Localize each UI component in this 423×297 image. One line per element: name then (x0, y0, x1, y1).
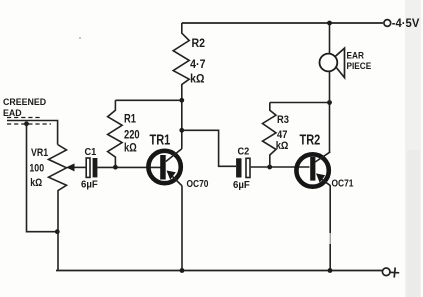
resistor R1 (108, 100, 123, 167)
node: R2 / R1 junction (179, 98, 184, 103)
label -4.5V (392, 18, 420, 30)
top supply rail (182, 22, 383, 24)
label OC70 (187, 178, 209, 190)
wire: R2 node down to collector node (181, 100, 183, 149)
capacitor C1 (86, 158, 90, 177)
screened lead: lower screen (dashed) (7, 123, 51, 125)
negative supply terminal (384, 20, 391, 27)
svg-text:EAD: EAD (3, 108, 22, 118)
svg-text:R347kΩ: R347kΩ (276, 114, 290, 152)
transistor TR2 (296, 152, 330, 187)
node: top rail / earpiece junction (327, 21, 332, 26)
screened lead label (3, 97, 46, 118)
node: collector / coupling junction (179, 128, 184, 133)
svg-text:C1: C1 (85, 147, 97, 159)
capacitor C2 (236, 158, 241, 177)
node: TR2 emitter / bottom rail (328, 268, 333, 273)
label TR1 (150, 131, 171, 148)
positive supply terminal (382, 268, 390, 276)
wire: C1 to TR1 base with R1 junction (97, 166, 161, 168)
svg-text:R24·7kΩ: R24·7kΩ (190, 37, 205, 85)
label R3 47 kΩ (276, 114, 290, 152)
svg-text:CREENED: CREENED (3, 97, 46, 107)
wire: top rail to earpiece (329, 23, 331, 54)
bottom supply rail (56, 270, 382, 272)
potentiometer VR1 track (49, 145, 67, 271)
svg-text:R1220kΩ: R1220kΩ (124, 112, 140, 154)
wire: TR2 emitter to bottom rail (329, 186, 331, 233)
label 6µF (233, 180, 250, 191)
wire: R1 top to R2 node (115, 99, 181, 101)
svg-text:TR1: TR1 (150, 131, 171, 148)
wire: C2 to TR2 base (251, 166, 310, 168)
wire: collector node to C2 (182, 130, 236, 166)
node: earpiece / R3 / collector junction (327, 100, 332, 105)
label R1 220 kΩ (124, 112, 140, 154)
svg-text:6µF: 6µF (233, 180, 250, 191)
label R2 4.7 kΩ (190, 37, 205, 85)
screened lead: upper screen (dashed) (7, 117, 42, 119)
svg-text:6µF: 6µF (81, 179, 98, 190)
label C1 (85, 147, 97, 159)
label 6µF (81, 179, 98, 190)
label TR2 (300, 131, 321, 148)
label C2 (238, 146, 250, 158)
svg-text:C2: C2 (238, 146, 250, 158)
node: screen to earth junction (24, 121, 29, 126)
wire: collector node down to TR2 (329, 103, 331, 153)
node: VR1 bottom / screen junction (55, 229, 60, 234)
screened lead: centre conductor wire (7, 121, 58, 145)
svg-text:VR1100kΩ: VR1100kΩ (29, 147, 48, 189)
svg-text:EARPIECE: EARPIECE (347, 50, 372, 71)
wire: earpiece to collector node (329, 71, 331, 102)
transistor TR1 (148, 149, 182, 186)
resistor R3 (263, 103, 277, 168)
label + (390, 268, 399, 278)
earpiece (320, 48, 345, 77)
node: R1 bottom / base junction (113, 165, 118, 170)
svg-text:-4·5V: -4·5V (392, 18, 420, 30)
svg-text:TR2: TR2 (300, 131, 321, 148)
svg-text:OC70: OC70 (187, 178, 209, 190)
resistor R2 (173, 23, 189, 100)
svg-text:OC71: OC71 (332, 178, 355, 190)
VR1 wiper arrow (72, 166, 86, 168)
label OC71 (332, 178, 355, 190)
paper scan band (decorative) (405, 0, 421, 297)
node: TR1 emitter / bottom rail (180, 268, 185, 273)
wire: TR1 emitter to bottom rail (181, 186, 183, 271)
label VR1 100 kΩ (29, 147, 48, 189)
wire: screen down to earth rail (27, 124, 58, 232)
wire: R3 top to earpiece node (270, 102, 330, 104)
label EAR PIECE (347, 50, 372, 71)
node: R3 bottom / base junction (267, 165, 272, 170)
